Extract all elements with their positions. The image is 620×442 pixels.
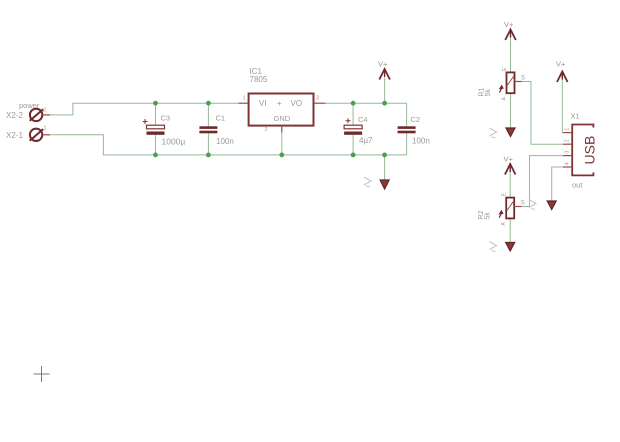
svg-text:C4: C4 <box>358 115 368 124</box>
wire R2 bottom to ground <box>509 219 511 242</box>
USB connector X1 <box>563 112 598 190</box>
svg-text:out: out <box>572 181 583 190</box>
svg-text:100n: 100n <box>216 137 234 146</box>
svg-text:X2-2: X2-2 <box>6 111 23 120</box>
wire R2 top from V+ <box>509 172 511 198</box>
svg-text:A: A <box>501 222 507 226</box>
svg-text:E: E <box>502 192 508 196</box>
ground symbol (main) <box>380 180 389 189</box>
gnd label mark (USB) <box>529 200 536 210</box>
capacitor C4 <box>344 115 373 145</box>
ground symbol (R1) <box>506 128 515 137</box>
wire V+ to USB pin 1 <box>561 78 564 133</box>
svg-text:S: S <box>521 76 525 82</box>
svg-text:V+: V+ <box>378 60 388 69</box>
wire C3 top <box>155 103 157 125</box>
svg-text:V+: V+ <box>504 20 514 29</box>
svg-text:1: 1 <box>44 126 47 132</box>
svg-text:C1: C1 <box>216 114 226 123</box>
wire net GND bottom rail: X2-1 along bottom <box>50 135 407 155</box>
junction top rail at C4 <box>351 101 356 106</box>
gnd label mark (R1) <box>490 128 497 138</box>
svg-text:+: + <box>277 99 282 108</box>
svg-text:2: 2 <box>265 127 268 133</box>
svg-text:5k: 5k <box>485 212 492 220</box>
svg-text:100n: 100n <box>412 137 430 146</box>
svg-text:X1: X1 <box>571 112 580 121</box>
svg-text:C3: C3 <box>161 114 171 123</box>
svg-text:S: S <box>521 201 525 207</box>
svg-text:4: 4 <box>564 162 570 165</box>
voltage regulator IC1 7805 <box>239 67 326 133</box>
wire C1 bottom <box>207 133 209 155</box>
junction top rail at C3 <box>153 101 158 106</box>
ground symbol (R2) <box>506 243 515 252</box>
connector X2-1 <box>30 129 50 141</box>
svg-text:VO: VO <box>291 99 303 108</box>
wire R1 top from V+ <box>510 38 512 73</box>
wire R1 bottom to ground <box>510 93 512 127</box>
junction top rail at V+ <box>382 101 387 106</box>
potentiometer R1 <box>479 67 526 101</box>
svg-text:X2-1: X2-1 <box>6 131 23 140</box>
wire C2 bottom <box>406 133 408 155</box>
supply symbol V+ (main output) <box>378 60 390 80</box>
wire C3 bottom <box>155 135 157 155</box>
supply symbol V+ (USB) <box>556 60 568 83</box>
svg-text:E: E <box>502 67 508 71</box>
wire ground stub <box>384 155 386 180</box>
svg-text:V+: V+ <box>556 60 566 69</box>
wire C1 top <box>207 103 209 126</box>
svg-text:V+: V+ <box>504 155 514 164</box>
junction top rail at C1 <box>206 101 211 106</box>
gnd label mark (R2) <box>490 242 497 252</box>
wire V+ to top rail <box>384 78 386 104</box>
junction bottom rail at ground stub <box>382 153 387 158</box>
junction bottom rail at IC1 GND <box>279 153 284 158</box>
svg-text:3: 3 <box>316 96 319 102</box>
svg-text:1000µ: 1000µ <box>162 137 186 147</box>
wire USB pin 4 to ground <box>552 167 563 201</box>
capacitor C3 <box>143 114 186 147</box>
origin crosshair <box>34 366 50 382</box>
capacitor C1 <box>199 114 233 147</box>
svg-text:C2: C2 <box>411 115 421 124</box>
junction bottom rail at C3 <box>153 153 158 158</box>
svg-text:1: 1 <box>243 96 246 102</box>
svg-text:1: 1 <box>564 128 570 131</box>
wire R1 wiper to USB pin 2 <box>522 82 564 145</box>
svg-text:power: power <box>19 101 40 110</box>
potentiometer R2 <box>478 192 525 226</box>
connector X2-2 <box>30 109 50 121</box>
capacitor C2 <box>398 115 430 146</box>
wire R2 wiper to USB pin 3 <box>522 156 564 207</box>
wire C2 top <box>406 103 408 126</box>
svg-text:5k: 5k <box>485 89 492 97</box>
svg-text:VI: VI <box>259 99 267 108</box>
junction bottom rail at C4 <box>351 153 356 158</box>
svg-text:4µ7: 4µ7 <box>359 136 373 145</box>
svg-text:3: 3 <box>564 151 570 154</box>
supply symbol V+ (R1) <box>504 20 516 40</box>
svg-text:2: 2 <box>43 108 46 114</box>
svg-text:2: 2 <box>564 139 570 142</box>
wire net VOUT top rail <box>325 102 406 104</box>
svg-text:A: A <box>502 97 508 101</box>
wire C4 top <box>352 103 354 125</box>
svg-text:USB: USB <box>582 136 598 165</box>
gnd label mark (main) <box>364 177 371 187</box>
wire C4 bottom <box>352 135 354 155</box>
svg-text:7805: 7805 <box>250 75 268 84</box>
svg-text:GND: GND <box>274 114 291 123</box>
ground symbol (USB pin 4) <box>547 201 556 210</box>
junction bottom rail at C1 <box>206 153 211 158</box>
supply symbol V+ (R2) <box>504 155 516 175</box>
wire IC1 GND pin to bottom rail <box>281 133 283 155</box>
wire net VIN: X2-2 to IC1 pin VI <box>50 103 239 115</box>
